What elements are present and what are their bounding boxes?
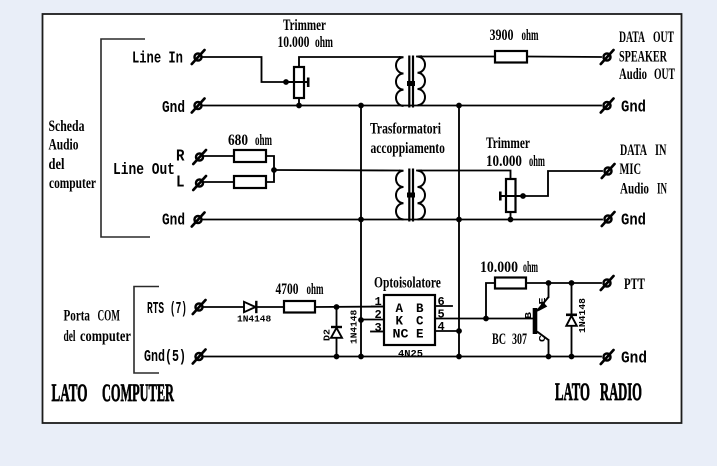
svg-text:Trasformatori: Trasformatori [370,120,441,137]
svg-text:Scheda: Scheda [49,117,85,134]
svg-text:ohm: ohm [522,27,539,44]
svg-text:2: 2 [375,308,382,322]
svg-text:computer: computer [49,174,96,191]
svg-text:Gnd: Gnd [621,97,646,116]
svg-text:BC: BC [492,330,506,348]
svg-text:307: 307 [512,330,527,348]
svg-text:COM: COM [98,307,120,324]
svg-text:ohm: ohm [255,132,272,149]
svg-text:Gnd: Gnd [162,100,185,118]
svg-text:E: E [538,297,549,304]
svg-text:ohm: ohm [523,258,538,276]
svg-text:RADIO: RADIO [600,379,642,407]
svg-text:IN: IN [655,141,667,159]
svg-text:L: L [176,173,184,192]
svg-text:1N4148: 1N4148 [237,314,272,325]
svg-text:Trimmer: Trimmer [283,16,326,33]
svg-text:Optoisolatore: Optoisolatore [374,274,441,291]
svg-text:1N4148: 1N4148 [577,298,588,333]
svg-text:C: C [538,334,549,342]
svg-text:C: C [416,315,424,329]
svg-text:Gnd: Gnd [621,210,646,229]
svg-text:OUT: OUT [654,65,675,83]
svg-text:3: 3 [375,321,382,335]
svg-text:4N25: 4N25 [398,350,423,361]
svg-text:computer: computer [80,328,131,346]
svg-text:680: 680 [228,132,248,149]
svg-text:10.000: 10.000 [278,33,310,50]
svg-text:Audio: Audio [49,136,79,153]
svg-text:Trimmer: Trimmer [486,134,530,151]
svg-text:ohm: ohm [315,34,333,51]
svg-text:MIC: MIC [620,160,641,178]
svg-text:3900: 3900 [490,27,514,44]
svg-text:accoppiamento: accoppiamento [371,139,446,156]
svg-text:LATO: LATO [52,380,88,408]
svg-text:Porta: Porta [64,307,91,324]
svg-text:RTS (7): RTS (7) [147,301,187,319]
svg-text:ohm: ohm [529,152,545,169]
svg-text:1N4148: 1N4148 [349,309,360,344]
svg-text:SPEAKER: SPEAKER [619,47,667,65]
svg-text:10.000: 10.000 [480,259,518,276]
svg-text:COMPUTER: COMPUTER [102,379,174,407]
svg-text:OUT: OUT [653,28,674,46]
svg-text:PTT: PTT [624,275,645,292]
svg-text:Gnd: Gnd [162,212,185,230]
svg-text:IN: IN [657,180,667,197]
svg-text:D2: D2 [322,329,333,341]
svg-text:DATA: DATA [620,141,647,159]
svg-text:10.000: 10.000 [486,153,522,170]
svg-text:B: B [524,311,535,319]
svg-text:Audio: Audio [619,65,647,82]
svg-text:Gnd: Gnd [621,349,647,368]
svg-text:Gnd(5): Gnd(5) [144,348,186,366]
svg-text:Audio: Audio [620,180,649,197]
svg-text:R: R [176,147,185,166]
svg-text:Line In: Line In [132,50,183,68]
svg-text:NC: NC [393,327,409,342]
svg-text:Line Out: Line Out [113,162,175,180]
svg-text:LATO: LATO [555,379,590,407]
svg-text:del: del [49,156,65,174]
svg-text:DATA: DATA [619,28,645,46]
svg-text:E: E [416,328,424,342]
svg-text:del: del [64,328,76,345]
svg-text:4700: 4700 [276,280,299,297]
svg-text:4: 4 [438,320,445,334]
svg-text:ohm: ohm [307,281,324,298]
